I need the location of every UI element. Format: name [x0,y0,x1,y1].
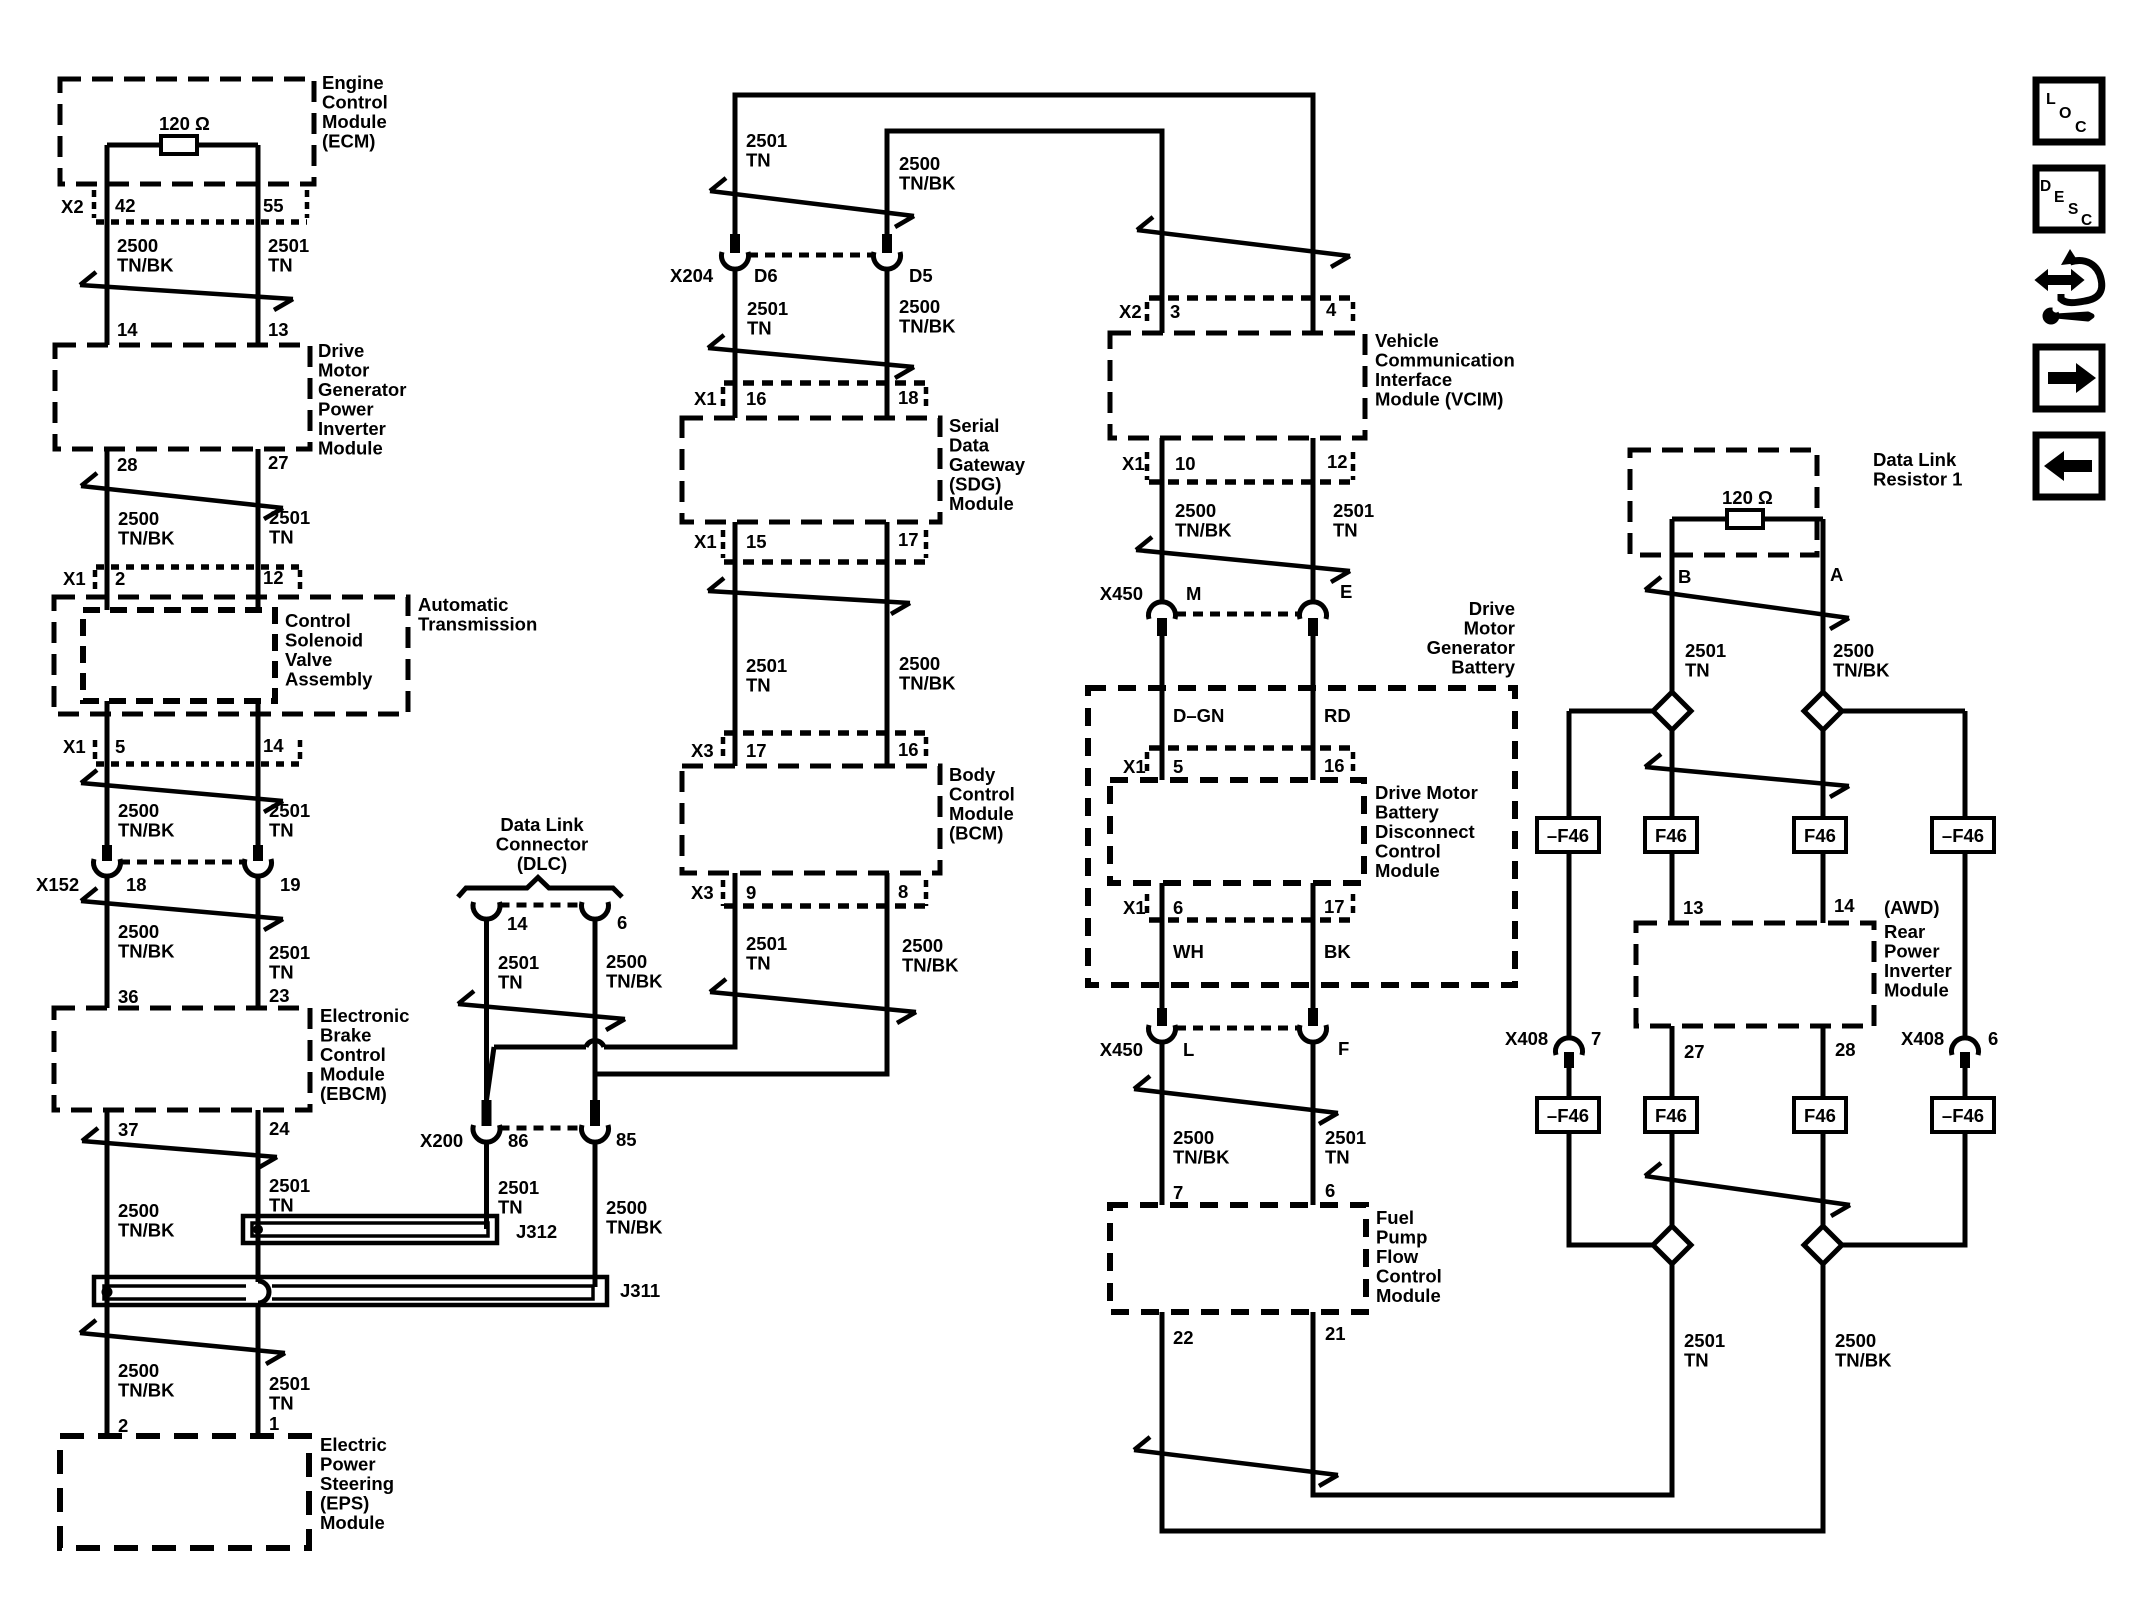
svg-text:15: 15 [746,531,767,552]
svg-text:85: 85 [616,1129,637,1150]
svg-text:Electric: Electric [320,1434,387,1455]
svg-text:27: 27 [1684,1041,1705,1062]
svg-text:Power: Power [320,1454,376,1475]
svg-text:2500: 2500 [118,1360,159,1381]
svg-text:Inverter: Inverter [318,418,386,439]
svg-text:TN: TN [269,820,294,841]
svg-text:TN/BK: TN/BK [118,528,175,549]
svg-text:2501: 2501 [1325,1127,1366,1148]
svg-text:Resistor 1: Resistor 1 [1873,469,1962,490]
svg-text:F: F [1338,1038,1349,1059]
svg-text:120 Ω: 120 Ω [159,113,210,134]
svg-text:Solenoid: Solenoid [285,630,363,651]
svg-text:Vehicle: Vehicle [1375,330,1439,351]
svg-text:Module: Module [320,1512,385,1533]
svg-text:4: 4 [1326,299,1337,320]
svg-text:5: 5 [115,736,125,757]
svg-text:X1: X1 [694,388,717,409]
svg-text:F46: F46 [1655,1105,1687,1126]
svg-text:14: 14 [507,913,528,934]
svg-text:2501: 2501 [269,1373,310,1394]
svg-text:6: 6 [617,912,627,933]
svg-text:2500: 2500 [902,935,943,956]
svg-text:TN: TN [747,318,772,339]
svg-text:E: E [2054,189,2064,206]
svg-text:(EPS): (EPS) [320,1493,369,1514]
svg-text:Module: Module [1884,980,1949,1001]
svg-text:2500: 2500 [1175,500,1216,521]
svg-text:O: O [2059,105,2071,122]
svg-text:Module: Module [318,438,383,459]
svg-text:2500: 2500 [1173,1127,1214,1148]
svg-text:TN/BK: TN/BK [118,941,175,962]
svg-text:L: L [2046,91,2056,108]
svg-text:Module (VCIM): Module (VCIM) [1375,389,1503,410]
svg-text:E: E [1340,581,1352,602]
svg-text:A: A [1830,564,1843,585]
svg-text:2501: 2501 [498,1177,539,1198]
svg-text:(DLC): (DLC) [517,853,567,874]
svg-text:Disconnect: Disconnect [1375,821,1475,842]
svg-text:F46: F46 [1655,825,1687,846]
svg-text:Interface: Interface [1375,369,1452,390]
svg-text:–F46: –F46 [1942,1105,1984,1126]
svg-text:Gateway: Gateway [949,454,1026,475]
svg-text:TN: TN [746,675,771,696]
svg-text:17: 17 [746,740,767,761]
svg-text:Module: Module [322,111,387,132]
svg-text:2501: 2501 [747,298,788,319]
svg-text:12: 12 [1327,451,1348,472]
svg-text:2500: 2500 [1835,1330,1876,1351]
svg-text:X1: X1 [1122,453,1145,474]
svg-text:6: 6 [1173,897,1183,918]
svg-text:Control: Control [1376,1266,1442,1287]
svg-text:2501: 2501 [268,235,309,256]
svg-text:TN/BK: TN/BK [118,1220,175,1241]
svg-text:TN/BK: TN/BK [899,673,956,694]
svg-text:X1: X1 [694,531,717,552]
svg-text:Module: Module [1376,1285,1441,1306]
svg-text:2501: 2501 [269,1175,310,1196]
svg-text:D–GN: D–GN [1173,705,1224,726]
svg-text:(EBCM): (EBCM) [320,1083,387,1104]
svg-text:28: 28 [117,454,138,475]
svg-text:RD: RD [1324,705,1351,726]
svg-text:TN/BK: TN/BK [606,971,663,992]
svg-text:(BCM): (BCM) [949,823,1003,844]
svg-text:–F46: –F46 [1942,825,1984,846]
svg-text:X408: X408 [1505,1028,1548,1049]
svg-text:Brake: Brake [320,1025,371,1046]
svg-text:Drive Motor: Drive Motor [1375,782,1478,803]
svg-text:16: 16 [1324,755,1345,776]
svg-text:2500: 2500 [606,1197,647,1218]
svg-text:C: C [2075,119,2087,136]
svg-text:13: 13 [1683,897,1704,918]
svg-text:2: 2 [115,568,125,589]
svg-text:TN/BK: TN/BK [118,820,175,841]
svg-text:16: 16 [898,739,919,760]
svg-text:37: 37 [118,1119,139,1140]
svg-text:TN: TN [1333,520,1358,541]
svg-text:(ECM): (ECM) [322,131,375,152]
svg-text:Connector: Connector [496,834,589,855]
svg-text:TN/BK: TN/BK [899,173,956,194]
svg-text:12: 12 [263,567,284,588]
svg-text:D5: D5 [909,265,933,286]
svg-text:J311: J311 [620,1280,660,1301]
svg-text:Engine: Engine [322,72,384,93]
svg-text:2501: 2501 [1685,640,1726,661]
svg-text:Control: Control [949,784,1015,805]
svg-text:F46: F46 [1804,1105,1836,1126]
svg-text:19: 19 [280,874,301,895]
svg-text:D6: D6 [754,265,778,286]
svg-text:Generator: Generator [318,379,406,400]
svg-text:2500: 2500 [118,508,159,529]
svg-text:Data Link: Data Link [1873,449,1957,470]
svg-text:Module: Module [320,1064,385,1085]
svg-text:J312: J312 [516,1221,557,1242]
svg-text:X2: X2 [61,196,84,217]
svg-text:Rear: Rear [1884,921,1925,942]
svg-text:Control: Control [1375,841,1441,862]
svg-text:18: 18 [126,874,147,895]
svg-text:X1: X1 [1123,756,1146,777]
svg-text:D: D [2040,178,2051,195]
svg-text:Flow: Flow [1376,1246,1419,1267]
svg-text:2500: 2500 [118,921,159,942]
svg-text:–F46: –F46 [1547,1105,1589,1126]
svg-text:TN: TN [498,972,523,993]
svg-text:X1: X1 [1123,897,1146,918]
svg-text:X450: X450 [1100,1039,1143,1060]
svg-text:L: L [1183,1039,1194,1060]
svg-text:TN/BK: TN/BK [1835,1350,1892,1371]
svg-text:2500: 2500 [899,653,940,674]
svg-text:7: 7 [1173,1182,1183,1203]
svg-text:Control: Control [285,610,351,631]
svg-text:Assembly: Assembly [285,669,373,690]
svg-text:Module: Module [1375,860,1440,881]
svg-text:120 Ω: 120 Ω [1722,487,1773,508]
svg-text:X1: X1 [63,736,86,757]
svg-text:28: 28 [1835,1039,1856,1060]
svg-text:27: 27 [268,452,289,473]
svg-text:TN/BK: TN/BK [1173,1147,1230,1168]
svg-text:Module: Module [949,493,1014,514]
svg-text:Valve: Valve [285,649,332,670]
svg-text:X450: X450 [1100,583,1143,604]
svg-text:2501: 2501 [498,952,539,973]
svg-text:9: 9 [746,882,756,903]
svg-text:TN/BK: TN/BK [902,955,959,976]
svg-text:Motor: Motor [1464,618,1515,639]
svg-text:2500: 2500 [118,1200,159,1221]
svg-text:16: 16 [746,388,767,409]
svg-text:Module: Module [949,803,1014,824]
svg-text:TN: TN [269,527,294,548]
svg-text:2500: 2500 [606,951,647,972]
svg-text:13: 13 [268,319,289,340]
svg-text:2501: 2501 [746,933,787,954]
svg-text:TN: TN [498,1197,523,1218]
svg-text:X3: X3 [691,740,714,761]
svg-text:(AWD): (AWD) [1884,897,1939,918]
svg-text:1: 1 [269,1413,279,1434]
svg-text:21: 21 [1325,1323,1346,1344]
svg-text:–F46: –F46 [1547,825,1589,846]
svg-text:Electronic: Electronic [320,1005,409,1026]
svg-text:Control: Control [322,92,388,113]
svg-text:Communication: Communication [1375,350,1515,371]
svg-text:C: C [2081,212,2092,229]
svg-text:Steering: Steering [320,1473,394,1494]
svg-text:F46: F46 [1804,825,1836,846]
svg-text:X204: X204 [670,265,714,286]
svg-text:18: 18 [898,387,919,408]
svg-text:Automatic: Automatic [418,594,508,615]
svg-text:22: 22 [1173,1327,1194,1348]
svg-text:X3: X3 [691,882,714,903]
svg-text:8: 8 [898,881,908,902]
svg-text:TN/BK: TN/BK [117,255,174,276]
svg-text:2501: 2501 [746,655,787,676]
svg-text:BK: BK [1324,941,1351,962]
svg-text:M: M [1186,583,1201,604]
svg-text:WH: WH [1173,941,1204,962]
svg-text:86: 86 [508,1130,529,1151]
svg-text:X152: X152 [36,874,79,895]
svg-text:6: 6 [1325,1180,1335,1201]
svg-text:14: 14 [263,735,284,756]
svg-text:2500: 2500 [899,153,940,174]
svg-text:Power: Power [318,399,374,420]
svg-text:2501: 2501 [746,130,787,151]
svg-text:B: B [1678,566,1691,587]
svg-text:TN: TN [1684,1350,1709,1371]
svg-text:TN: TN [269,1393,294,1414]
svg-text:Motor: Motor [318,360,369,381]
svg-text:X408: X408 [1901,1028,1944,1049]
svg-text:S: S [2068,201,2078,218]
svg-text:Data Link: Data Link [500,814,584,835]
svg-text:3: 3 [1170,301,1180,322]
svg-text:2500: 2500 [117,235,158,256]
svg-text:TN: TN [269,1195,294,1216]
svg-text:TN/BK: TN/BK [118,1380,175,1401]
svg-text:Fuel: Fuel [1376,1207,1414,1228]
svg-text:Generator: Generator [1427,637,1515,658]
svg-text:7: 7 [1591,1028,1601,1049]
svg-text:TN: TN [1325,1147,1350,1168]
svg-text:TN: TN [1685,660,1710,681]
svg-text:2500: 2500 [899,296,940,317]
svg-text:14: 14 [1834,895,1855,916]
svg-text:5: 5 [1173,756,1183,777]
svg-text:14: 14 [117,319,138,340]
svg-text:2501: 2501 [269,800,310,821]
svg-text:TN: TN [746,150,771,171]
svg-text:X1: X1 [63,568,86,589]
svg-text:Battery: Battery [1375,802,1439,823]
svg-text:Drive: Drive [318,340,364,361]
svg-text:17: 17 [1324,896,1345,917]
svg-text:2501: 2501 [269,942,310,963]
svg-text:Control: Control [320,1044,386,1065]
svg-text:23: 23 [269,985,290,1006]
svg-text:36: 36 [118,986,139,1007]
svg-text:2501: 2501 [1333,500,1374,521]
svg-text:Power: Power [1884,941,1940,962]
svg-text:2500: 2500 [118,800,159,821]
svg-text:Battery: Battery [1451,657,1515,678]
svg-text:Pump: Pump [1376,1227,1427,1248]
svg-text:TN: TN [268,255,293,276]
svg-text:(SDG): (SDG) [949,474,1001,495]
svg-text:TN: TN [269,962,294,983]
svg-text:TN/BK: TN/BK [1175,520,1232,541]
svg-text:TN/BK: TN/BK [899,316,956,337]
svg-text:X2: X2 [1119,301,1142,322]
svg-text:2501: 2501 [1684,1330,1725,1351]
svg-text:6: 6 [1988,1028,1998,1049]
svg-text:Drive: Drive [1469,598,1515,619]
svg-text:Body: Body [949,764,996,785]
svg-text:Transmission: Transmission [418,614,537,635]
svg-text:TN/BK: TN/BK [1833,660,1890,681]
svg-text:Data: Data [949,435,990,456]
svg-text:10: 10 [1175,453,1196,474]
svg-text:55: 55 [263,195,284,216]
svg-text:24: 24 [269,1118,290,1139]
svg-text:2500: 2500 [1833,640,1874,661]
svg-text:Inverter: Inverter [1884,960,1952,981]
svg-text:2: 2 [118,1415,128,1436]
svg-text:42: 42 [115,195,136,216]
svg-text:X200: X200 [420,1130,463,1151]
svg-text:Serial: Serial [949,415,999,436]
svg-text:TN: TN [746,953,771,974]
svg-text:17: 17 [898,529,919,550]
svg-text:TN/BK: TN/BK [606,1217,663,1238]
svg-text:2501: 2501 [269,507,310,528]
